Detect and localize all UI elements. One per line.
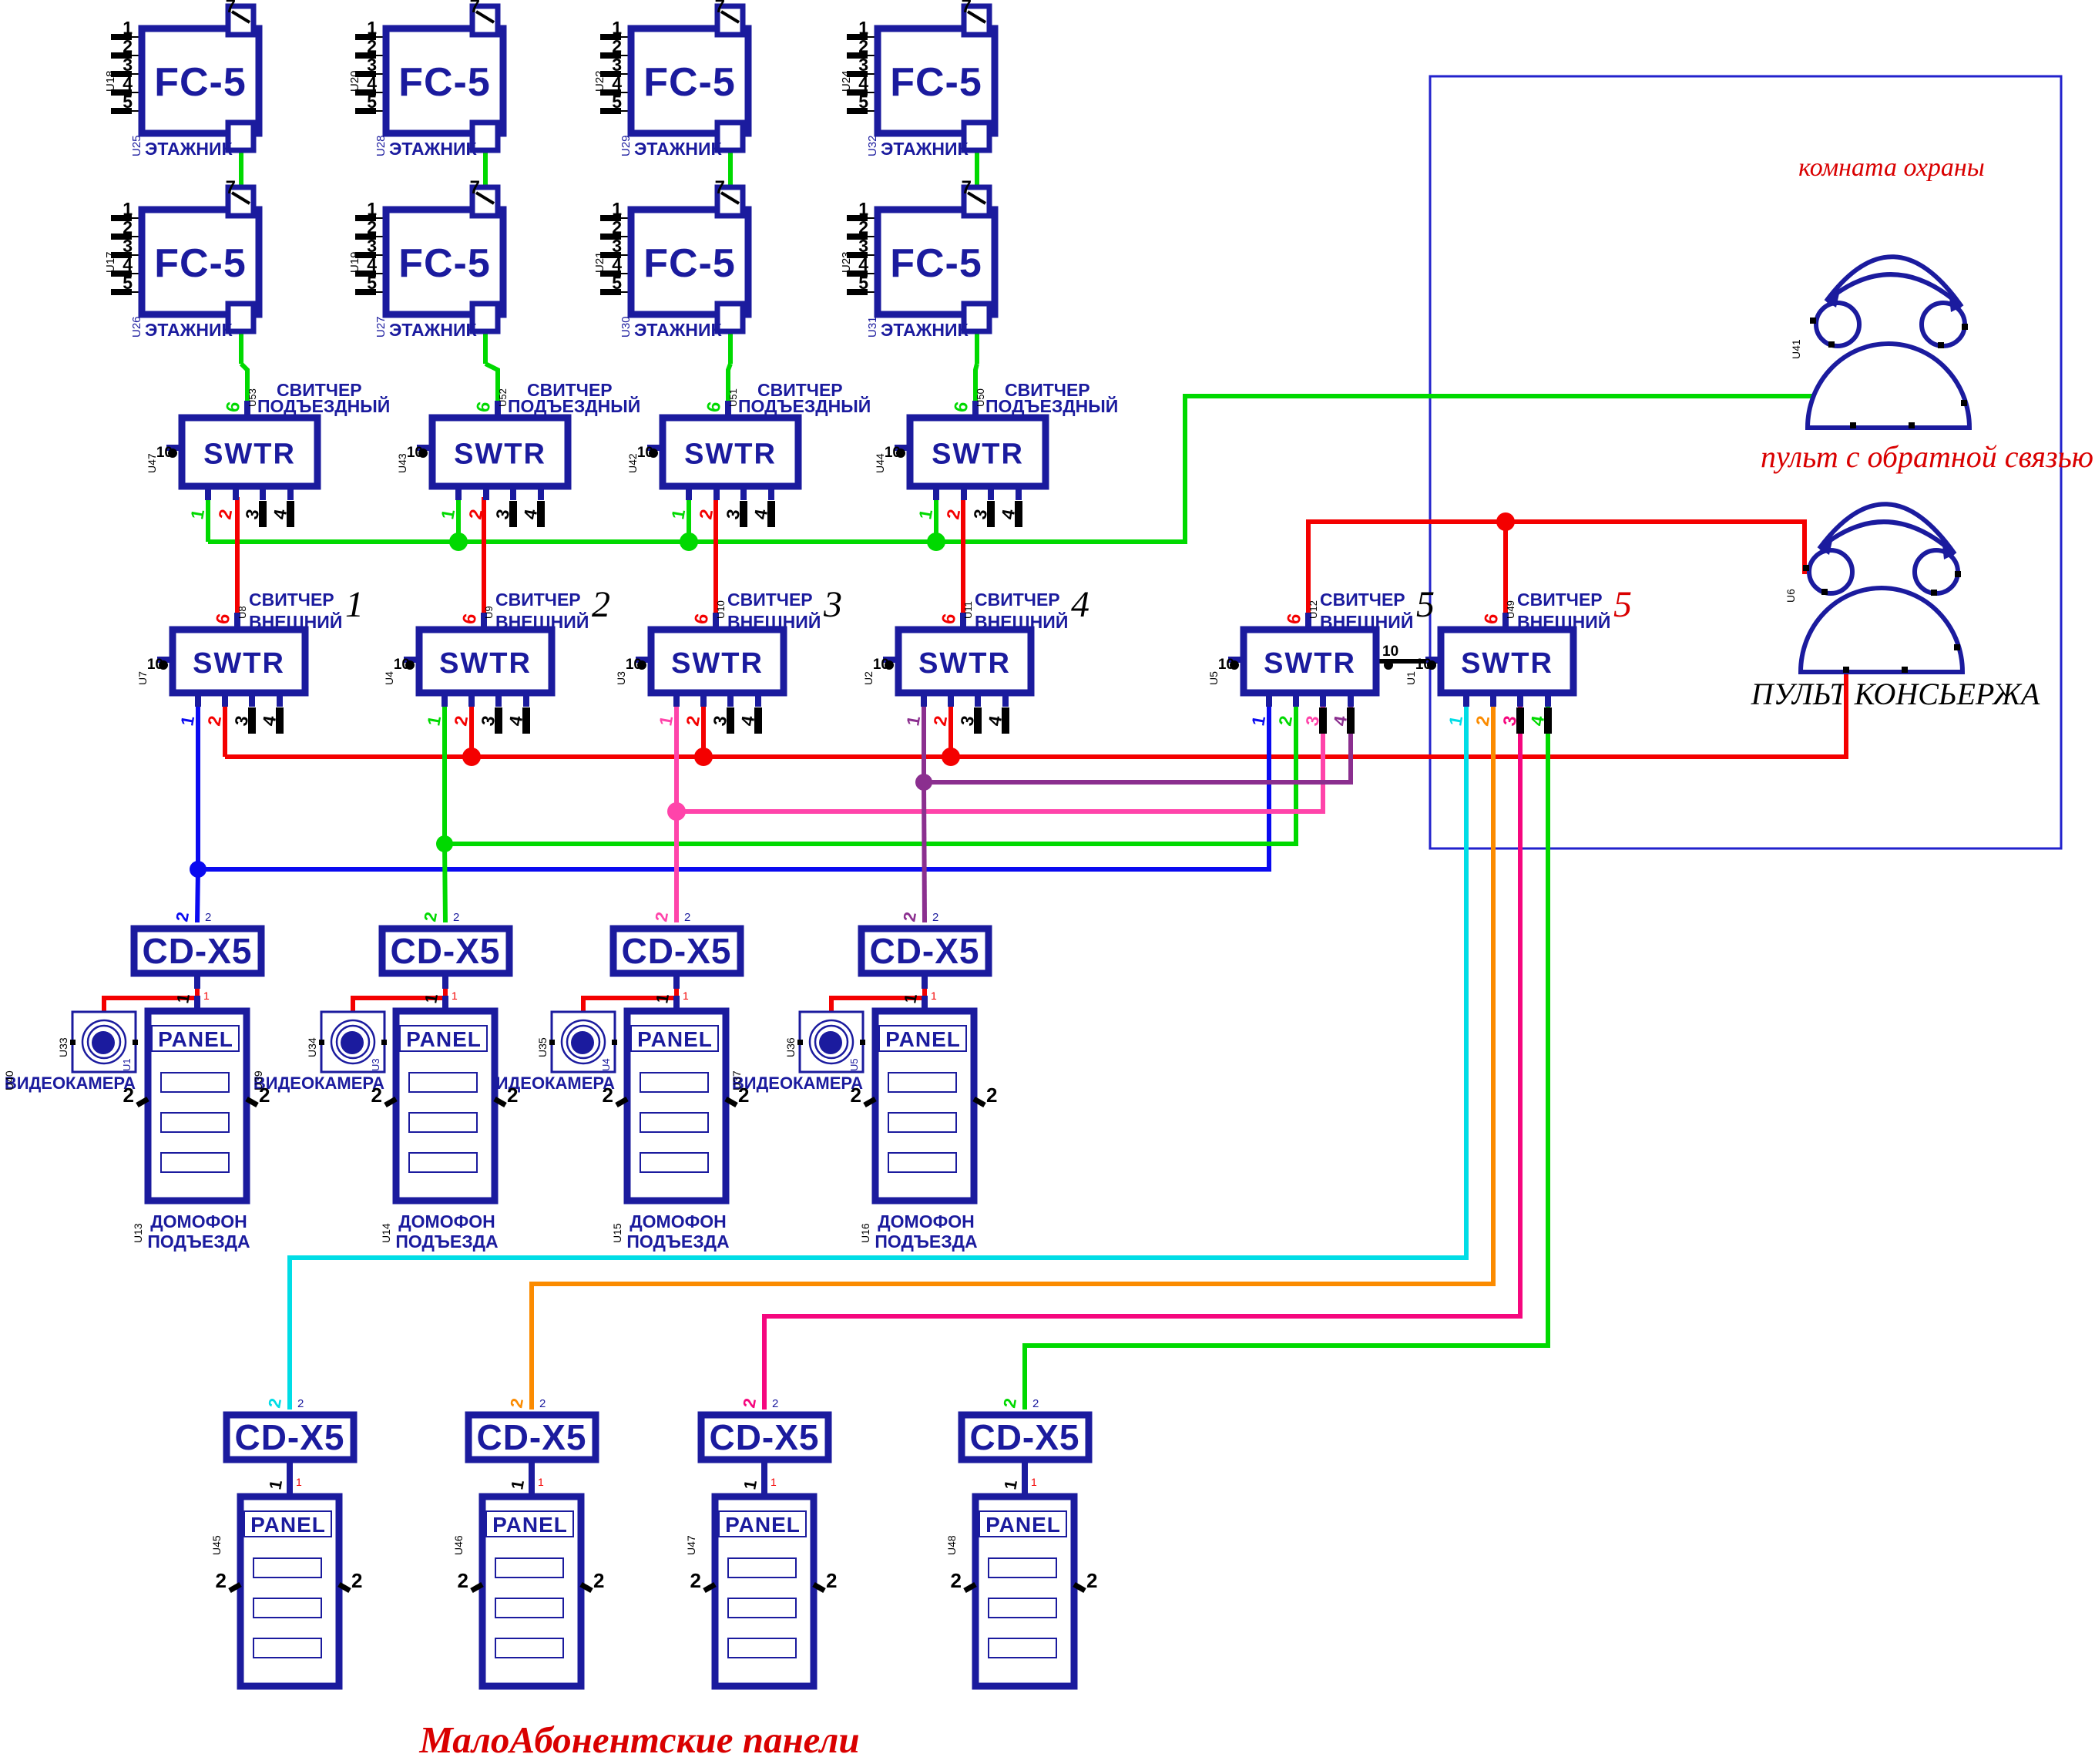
svg-text:1: 1 xyxy=(538,1476,544,1488)
svg-text:ЭТАЖНИК: ЭТАЖНИК xyxy=(634,139,723,159)
small-capacity panel PANEL U47 xyxy=(685,1463,837,1686)
svg-text:U25: U25 xyxy=(130,135,143,156)
floor coupler FC-5 U20 (U28 ЭТАЖНИК) xyxy=(348,0,503,159)
svg-text:FC-5: FC-5 xyxy=(398,241,491,286)
svg-text:U22: U22 xyxy=(593,70,606,92)
svg-text:2: 2 xyxy=(986,1084,997,1107)
svg-text:7: 7 xyxy=(962,0,972,17)
svg-text:CD-X5: CD-X5 xyxy=(621,931,731,971)
svg-text:10: 10 xyxy=(1382,643,1398,660)
svg-text:SWTR: SWTR xyxy=(203,438,296,471)
wire green riser FC-5 column 4 xyxy=(963,139,982,401)
svg-text:U4: U4 xyxy=(383,671,395,685)
svg-text:U41: U41 xyxy=(1790,339,1802,359)
svg-text:U15: U15 xyxy=(611,1223,623,1243)
svg-text:U17: U17 xyxy=(104,251,117,273)
svg-text:2: 2 xyxy=(216,1569,227,1592)
svg-text:CD-X5: CD-X5 xyxy=(969,1417,1079,1457)
svg-text:3: 3 xyxy=(823,584,842,625)
svg-text:2: 2 xyxy=(458,1569,468,1592)
svg-text:CD-X5: CD-X5 xyxy=(142,931,252,971)
svg-text:2: 2 xyxy=(539,1397,546,1410)
svg-text:3: 3 xyxy=(123,55,133,75)
svg-text:U27: U27 xyxy=(374,316,388,338)
svg-text:FC-5: FC-5 xyxy=(643,60,736,105)
svg-text:ЭТАЖНИК: ЭТАЖНИК xyxy=(634,320,723,340)
wire purple video trunk 4 xyxy=(924,705,1351,922)
small-capacity panel PANEL U48 xyxy=(945,1463,1097,1686)
distributor CD-X5 U1? column 1 xyxy=(134,910,261,1004)
svg-text:U24: U24 xyxy=(840,70,853,92)
svg-text:U18: U18 xyxy=(104,70,117,92)
svg-text:ВИДЕОКАМЕРА: ВИДЕОКАМЕРА xyxy=(484,1074,615,1093)
outer switcher SWTR U49 (СВИТЧЕР ВНЕШНИЙ 5) xyxy=(1405,584,1632,734)
svg-text:1: 1 xyxy=(296,1476,302,1488)
concierge handset U6 (ПУЛЬТ КОНСЬЕРЖА) xyxy=(1784,504,1962,673)
svg-text:U26: U26 xyxy=(130,316,143,338)
svg-text:2: 2 xyxy=(684,911,690,924)
svg-text:U7: U7 xyxy=(136,671,149,685)
svg-text:FC-5: FC-5 xyxy=(643,241,736,286)
svg-text:2: 2 xyxy=(603,1084,613,1107)
svg-text:1: 1 xyxy=(1031,1476,1037,1488)
wire red camera feed 1 xyxy=(104,989,197,1012)
floor coupler FC-5 U17 (U26 ЭТАЖНИК) xyxy=(104,177,259,340)
distributor CD-X5 (small panel 3) xyxy=(701,1396,828,1490)
svg-text:5: 5 xyxy=(858,92,868,112)
svg-text:7: 7 xyxy=(226,0,236,17)
svg-text:U20: U20 xyxy=(348,70,361,92)
svg-text:4: 4 xyxy=(1071,584,1089,625)
svg-text:U47: U47 xyxy=(146,453,158,473)
svg-text:3: 3 xyxy=(612,55,622,75)
svg-text:1: 1 xyxy=(345,584,364,625)
svg-text:2: 2 xyxy=(1032,1397,1039,1410)
svg-text:ДОМОФОН: ДОМОФОН xyxy=(878,1211,974,1231)
svg-text:ЭТАЖНИК: ЭТАЖНИК xyxy=(145,139,233,159)
svg-text:2: 2 xyxy=(123,1084,134,1107)
floor coupler FC-5 U24 (U32 ЭТАЖНИК) xyxy=(840,0,995,159)
svg-text:1: 1 xyxy=(123,199,133,219)
wire blue video trunk 1 xyxy=(197,705,1269,922)
svg-text:SWTR: SWTR xyxy=(684,438,777,471)
svg-text:ВНЕШНИЙ: ВНЕШНИЙ xyxy=(1517,611,1610,632)
svg-text:U48: U48 xyxy=(945,1535,958,1555)
svg-text:PANEL: PANEL xyxy=(492,1513,568,1537)
svg-text:U36: U36 xyxy=(784,1037,797,1057)
wire red link to outer switcher 2 pin6 xyxy=(482,497,486,623)
svg-text:SWTR: SWTR xyxy=(454,438,546,471)
svg-text:2: 2 xyxy=(367,217,377,237)
svg-text:5: 5 xyxy=(367,92,377,112)
svg-text:U50: U50 xyxy=(975,388,986,407)
svg-text:U3: U3 xyxy=(615,671,627,685)
wire cyan to small panel 1 xyxy=(290,705,1466,1410)
svg-text:U42: U42 xyxy=(626,453,639,473)
svg-text:FC-5: FC-5 xyxy=(398,60,491,105)
entry door phone PANEL U13 (ДОМОФОН ПОДЪЕЗДА) xyxy=(123,996,270,1252)
wire deep pink to small panel 3 xyxy=(764,705,1520,1410)
svg-text:U40: U40 xyxy=(3,1070,15,1090)
svg-text:U14: U14 xyxy=(380,1223,392,1243)
svg-text:FC-5: FC-5 xyxy=(890,241,982,286)
svg-text:PANEL: PANEL xyxy=(885,1027,961,1051)
svg-text:U51: U51 xyxy=(727,388,739,407)
distributor CD-X5 (small panel 4) xyxy=(962,1396,1089,1490)
svg-text:U2: U2 xyxy=(862,671,875,685)
wire pink video trunk 3 xyxy=(677,705,1323,922)
svg-text:СВИТЧЕР: СВИТЧЕР xyxy=(495,590,581,610)
wire green video trunk 2 xyxy=(445,705,1296,922)
junction pink trunk xyxy=(667,802,686,821)
svg-text:U5: U5 xyxy=(848,1058,860,1071)
svg-text:PANEL: PANEL xyxy=(985,1513,1061,1537)
distributor CD-X5 (small panel 2) xyxy=(468,1396,596,1490)
svg-text:5: 5 xyxy=(1416,584,1435,625)
svg-text:1: 1 xyxy=(203,990,210,1002)
svg-text:СВИТЧЕР: СВИТЧЕР xyxy=(727,590,813,610)
svg-text:U23: U23 xyxy=(840,251,853,273)
svg-text:3: 3 xyxy=(123,236,133,256)
junction green trunk xyxy=(436,835,453,852)
svg-text:МалоАбонентские панели: МалоАбонентские панели xyxy=(418,1719,859,1761)
svg-text:ПОДЪЕЗДА: ПОДЪЕЗДА xyxy=(147,1231,250,1252)
svg-text:3: 3 xyxy=(612,236,622,256)
entry door phone PANEL U16 (ДОМОФОН ПОДЪЕЗДА) xyxy=(851,996,998,1252)
svg-text:U44: U44 xyxy=(874,453,886,473)
svg-text:2: 2 xyxy=(593,1569,604,1592)
svg-text:U11: U11 xyxy=(962,601,974,619)
entry door phone PANEL U15 (ДОМОФОН ПОДЪЕЗДА) xyxy=(603,996,750,1252)
svg-text:1: 1 xyxy=(931,990,937,1002)
distributor CD-X5 U3? column 3 xyxy=(613,910,740,1004)
svg-text:5: 5 xyxy=(612,92,622,112)
svg-text:2: 2 xyxy=(612,217,622,237)
svg-text:2: 2 xyxy=(507,1084,518,1107)
svg-text:3: 3 xyxy=(858,236,868,256)
svg-text:2: 2 xyxy=(1086,1569,1097,1592)
wire red camera feed 3 xyxy=(583,989,677,1012)
svg-text:4: 4 xyxy=(123,254,133,274)
svg-text:U6: U6 xyxy=(1784,589,1797,603)
svg-text:U3: U3 xyxy=(370,1058,381,1071)
svg-text:ЭТАЖНИК: ЭТАЖНИК xyxy=(389,139,478,159)
svg-text:5: 5 xyxy=(123,273,133,293)
svg-text:ЭТАЖНИК: ЭТАЖНИК xyxy=(881,320,969,340)
wire green riser FC-5 column 3 xyxy=(717,139,735,401)
entry switcher SWTR U53 (СВИТЧЕР ПОДЪЕЗДНЫЙ 1) xyxy=(146,380,390,527)
svg-text:1: 1 xyxy=(683,990,689,1002)
svg-text:7: 7 xyxy=(962,177,972,198)
svg-text:ВНЕШНИЙ: ВНЕШНИЙ xyxy=(249,611,342,632)
svg-text:2: 2 xyxy=(453,911,459,924)
svg-text:ВИДЕОКАМЕРА: ВИДЕОКАМЕРА xyxy=(732,1074,863,1093)
svg-text:4: 4 xyxy=(858,73,868,93)
svg-text:PANEL: PANEL xyxy=(406,1027,482,1051)
svg-text:1: 1 xyxy=(771,1476,777,1488)
svg-text:ЭТАЖНИК: ЭТАЖНИК xyxy=(145,320,233,340)
svg-text:U1: U1 xyxy=(1405,671,1417,685)
svg-text:U5: U5 xyxy=(1207,671,1220,685)
svg-text:U28: U28 xyxy=(374,135,388,156)
distributor CD-X5 U2? column 2 xyxy=(382,910,509,1004)
entry switcher SWTR U50 (СВИТЧЕР ПОДЪЕЗДНЫЙ 4) xyxy=(874,380,1118,527)
svg-text:U34: U34 xyxy=(306,1037,318,1057)
wire red link to outer switcher 1 pin6 xyxy=(235,497,240,623)
svg-text:U46: U46 xyxy=(452,1535,465,1555)
svg-text:СВИТЧЕР: СВИТЧЕР xyxy=(249,590,334,610)
svg-text:ДОМОФОН: ДОМОФОН xyxy=(398,1211,495,1231)
svg-text:SWTR: SWTR xyxy=(439,647,532,680)
svg-text:SWTR: SWTR xyxy=(1461,647,1553,680)
svg-text:2: 2 xyxy=(932,911,938,924)
svg-text:SWTR: SWTR xyxy=(193,647,285,680)
svg-text:U19: U19 xyxy=(348,251,361,273)
svg-text:2: 2 xyxy=(351,1569,362,1592)
entry switcher SWTR U52 (СВИТЧЕР ПОДЪЕЗДНЫЙ 2) xyxy=(396,380,640,527)
small-capacity panel PANEL U45 xyxy=(210,1463,362,1686)
svg-text:ПОДЪЕЗДНЫЙ: ПОДЪЕЗДНЫЙ xyxy=(508,395,640,416)
outer switcher SWTR U10 (СВИТЧЕР ВНЕШНИЙ 3) xyxy=(615,584,842,734)
svg-text:4: 4 xyxy=(367,254,377,274)
outer switcher SWTR U11 (СВИТЧЕР ВНЕШНИЙ 4) xyxy=(862,584,1089,734)
svg-text:4: 4 xyxy=(612,254,622,274)
entry door phone PANEL U14 (ДОМОФОН ПОДЪЕЗДА) xyxy=(371,996,519,1252)
svg-text:2: 2 xyxy=(612,36,622,56)
svg-text:ВНЕШНИЙ: ВНЕШНИЙ xyxy=(727,611,821,632)
wire green riser FC-5 column 2 xyxy=(472,139,498,401)
video camera U35 (ВИДЕОКАМЕРА) xyxy=(482,1012,617,1093)
floor coupler FC-5 U19 (U27 ЭТАЖНИК) xyxy=(348,177,503,340)
svg-text:3: 3 xyxy=(858,55,868,75)
distributor CD-X5 U4? column 4 xyxy=(861,910,989,1004)
svg-text:2: 2 xyxy=(772,1397,778,1410)
wire red camera feed 4 xyxy=(831,989,925,1012)
svg-text:5: 5 xyxy=(1613,584,1632,625)
svg-text:4: 4 xyxy=(367,73,377,93)
outer switcher SWTR U12 (СВИТЧЕР ВНЕШНИЙ 5) xyxy=(1207,584,1435,734)
svg-text:FC-5: FC-5 xyxy=(890,60,982,105)
svg-text:SWTR: SWTR xyxy=(1264,647,1356,680)
svg-text:1: 1 xyxy=(858,18,868,38)
svg-text:7: 7 xyxy=(715,177,725,198)
svg-text:2: 2 xyxy=(690,1569,701,1592)
svg-text:ПОДЪЕЗДНЫЙ: ПОДЪЕЗДНЫЙ xyxy=(985,395,1118,416)
svg-text:2: 2 xyxy=(738,1084,749,1107)
svg-text:U9: U9 xyxy=(483,606,495,619)
svg-text:U47: U47 xyxy=(685,1535,697,1555)
svg-text:1: 1 xyxy=(123,18,133,38)
wire green bus from entry switchers to guard room xyxy=(208,396,1814,542)
svg-text:4: 4 xyxy=(123,73,133,93)
svg-text:ВИДЕОКАМЕРА: ВИДЕОКАМЕРА xyxy=(5,1074,136,1093)
svg-text:U12: U12 xyxy=(1308,600,1319,619)
junction green bus xyxy=(449,533,945,551)
wire red bus from outer switcher pins2 to concierge handset xyxy=(225,673,1846,757)
svg-text:PANEL: PANEL xyxy=(250,1513,326,1537)
svg-text:2: 2 xyxy=(123,36,133,56)
svg-text:SWTR: SWTR xyxy=(671,647,764,680)
svg-text:2: 2 xyxy=(371,1084,382,1107)
wire red link to outer switcher 4 pin6 xyxy=(961,497,965,623)
svg-text:SWTR: SWTR xyxy=(918,647,1011,680)
junction red bus xyxy=(462,748,960,766)
svg-text:7: 7 xyxy=(715,0,725,17)
svg-text:1: 1 xyxy=(858,199,868,219)
video camera U34 (ВИДЕОКАМЕРА) xyxy=(252,1012,387,1093)
entry switcher SWTR U51 (СВИТЧЕР ПОДЪЕЗДНЫЙ 3) xyxy=(626,380,871,527)
svg-text:2: 2 xyxy=(123,217,133,237)
svg-text:U4: U4 xyxy=(600,1058,612,1071)
svg-text:U35: U35 xyxy=(536,1037,549,1057)
svg-text:ДОМОФОН: ДОМОФОН xyxy=(630,1211,726,1231)
svg-text:CD-X5: CD-X5 xyxy=(869,931,979,971)
svg-text:ВНЕШНИЙ: ВНЕШНИЙ xyxy=(495,611,589,632)
svg-text:5: 5 xyxy=(367,273,377,293)
svg-text:ПОДЪЕЗДНЫЙ: ПОДЪЕЗДНЫЙ xyxy=(257,395,390,416)
svg-text:SWTR: SWTR xyxy=(932,438,1024,471)
floor coupler FC-5 U18 (U25 ЭТАЖНИК) xyxy=(104,0,259,159)
wire orange to small panel 2 xyxy=(532,705,1493,1410)
svg-text:2: 2 xyxy=(205,911,211,924)
svg-text:CD-X5: CD-X5 xyxy=(234,1417,344,1457)
svg-text:2: 2 xyxy=(297,1397,304,1410)
svg-text:1: 1 xyxy=(452,990,458,1002)
guard feedback handset U41 (пульт с обратной связью) xyxy=(1790,257,1969,428)
junction red at switcher 6 xyxy=(1496,512,1515,531)
svg-text:1: 1 xyxy=(367,18,377,38)
svg-text:2: 2 xyxy=(367,36,377,56)
svg-text:4: 4 xyxy=(858,254,868,274)
wire black link between outer switchers 5 and 6 pin10 xyxy=(1379,643,1441,670)
svg-text:пульт с обратной связью: пульт с обратной связью xyxy=(1761,439,2093,474)
svg-text:U16: U16 xyxy=(859,1223,871,1243)
svg-text:ПОДЪЕЗДА: ПОДЪЕЗДА xyxy=(875,1231,977,1252)
svg-text:7: 7 xyxy=(470,177,480,198)
svg-text:2: 2 xyxy=(851,1084,861,1107)
svg-text:1: 1 xyxy=(612,199,622,219)
outer switcher SWTR U8 (СВИТЧЕР ВНЕШНИЙ 1) xyxy=(136,584,364,734)
svg-text:1: 1 xyxy=(367,199,377,219)
svg-text:PANEL: PANEL xyxy=(637,1027,713,1051)
svg-text:2: 2 xyxy=(858,36,868,56)
wire red from outer switchers 5 and 6 to concierge handset earpiece xyxy=(1308,522,1805,623)
svg-text:2: 2 xyxy=(858,217,868,237)
svg-text:5: 5 xyxy=(858,273,868,293)
svg-text:7: 7 xyxy=(470,0,480,17)
svg-text:ПОДЪЕЗДА: ПОДЪЕЗДА xyxy=(626,1231,729,1252)
wire bright green to small panel 4 xyxy=(1025,705,1548,1410)
svg-text:U8: U8 xyxy=(237,606,248,619)
svg-text:ДОМОФОН: ДОМОФОН xyxy=(150,1211,247,1231)
svg-text:PANEL: PANEL xyxy=(158,1027,233,1051)
svg-text:U53: U53 xyxy=(247,388,258,407)
svg-text:U29: U29 xyxy=(619,135,633,156)
wire green riser FC-5 column 1 xyxy=(227,139,247,401)
svg-text:U31: U31 xyxy=(866,316,879,338)
svg-text:СВИТЧЕР: СВИТЧЕР xyxy=(975,590,1060,610)
svg-text:СВИТЧЕР: СВИТЧЕР xyxy=(1320,590,1405,610)
svg-text:2: 2 xyxy=(951,1569,962,1592)
svg-text:U1: U1 xyxy=(121,1058,133,1071)
svg-text:U33: U33 xyxy=(57,1037,69,1057)
svg-text:U45: U45 xyxy=(210,1535,223,1555)
svg-text:U52: U52 xyxy=(497,388,509,407)
security room boundary (комната охраны) xyxy=(1430,76,2061,848)
svg-text:2: 2 xyxy=(826,1569,837,1592)
svg-text:комната охраны: комната охраны xyxy=(1798,153,1985,182)
svg-text:СВИТЧЕР: СВИТЧЕР xyxy=(1517,590,1603,610)
floor coupler FC-5 U23 (U31 ЭТАЖНИК) xyxy=(840,177,995,340)
svg-text:U21: U21 xyxy=(593,251,606,273)
svg-text:U49: U49 xyxy=(1505,600,1516,619)
svg-text:PANEL: PANEL xyxy=(725,1513,801,1537)
svg-text:2: 2 xyxy=(259,1084,270,1107)
video camera U36 (ВИДЕОКАМЕРА) xyxy=(730,1012,865,1093)
svg-text:CD-X5: CD-X5 xyxy=(476,1417,586,1457)
svg-text:ЭТАЖНИК: ЭТАЖНИК xyxy=(881,139,969,159)
svg-text:7: 7 xyxy=(226,177,236,198)
wire red link to outer switcher 3 pin6 xyxy=(713,497,718,623)
svg-text:3: 3 xyxy=(367,55,377,75)
svg-text:FC-5: FC-5 xyxy=(154,60,247,105)
floor coupler FC-5 U21 (U30 ЭТАЖНИК) xyxy=(593,177,748,340)
small-capacity panel PANEL U46 xyxy=(452,1463,604,1686)
svg-text:4: 4 xyxy=(612,73,622,93)
svg-text:ВНЕШНИЙ: ВНЕШНИЙ xyxy=(1320,611,1413,632)
svg-text:U43: U43 xyxy=(396,453,408,473)
junction blue xyxy=(190,861,206,878)
svg-text:2: 2 xyxy=(592,584,610,625)
junction purple trunk xyxy=(915,774,932,791)
svg-text:3: 3 xyxy=(367,236,377,256)
svg-text:5: 5 xyxy=(123,92,133,112)
floor coupler FC-5 U22 (U29 ЭТАЖНИК) xyxy=(593,0,748,159)
outer switcher SWTR U9 (СВИТЧЕР ВНЕШНИЙ 2) xyxy=(383,584,610,734)
svg-text:1: 1 xyxy=(612,18,622,38)
svg-text:ПОДЪЕЗДА: ПОДЪЕЗДА xyxy=(395,1231,498,1252)
svg-text:5: 5 xyxy=(612,273,622,293)
svg-text:ВИДЕОКАМЕРА: ВИДЕОКАМЕРА xyxy=(253,1074,384,1093)
svg-text:U10: U10 xyxy=(715,600,727,619)
svg-text:U30: U30 xyxy=(619,316,633,338)
svg-text:CD-X5: CD-X5 xyxy=(390,931,500,971)
svg-text:ПОДЪЕЗДНЫЙ: ПОДЪЕЗДНЫЙ xyxy=(738,395,871,416)
svg-text:ВНЕШНИЙ: ВНЕШНИЙ xyxy=(975,611,1068,632)
svg-text:U13: U13 xyxy=(132,1223,144,1243)
wire red camera feed 2 xyxy=(353,989,445,1012)
svg-text:ПУЛЬТ КОНСЬЕРЖА: ПУЛЬТ КОНСЬЕРЖА xyxy=(1751,677,2040,711)
svg-text:U32: U32 xyxy=(866,135,879,156)
video camera U33 (ВИДЕОКАМЕРА) xyxy=(3,1012,138,1093)
distributor CD-X5 (small panel 1) xyxy=(227,1396,354,1490)
svg-text:FC-5: FC-5 xyxy=(154,241,247,286)
svg-text:CD-X5: CD-X5 xyxy=(709,1417,819,1457)
svg-text:ЭТАЖНИК: ЭТАЖНИК xyxy=(389,320,478,340)
